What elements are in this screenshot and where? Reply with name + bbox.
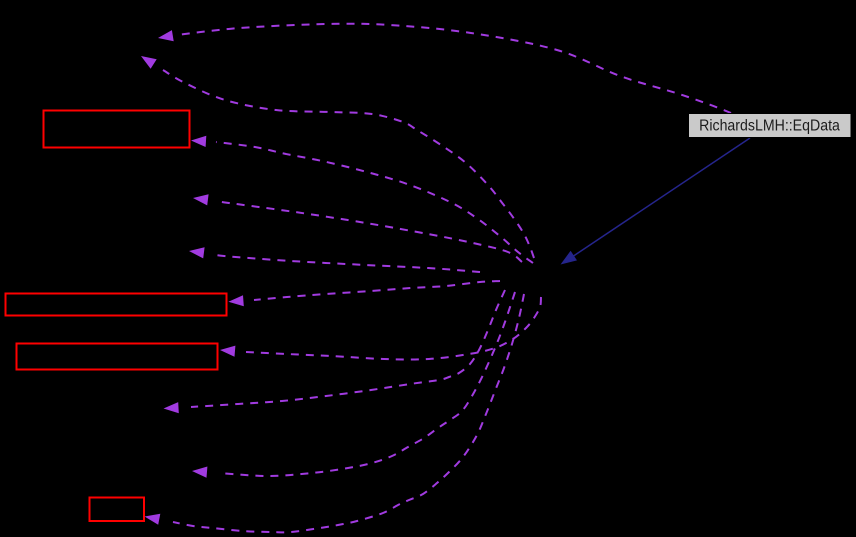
edge 9 (dashed purple usage arrow) xyxy=(192,292,515,478)
edge 8 (dashed purple usage arrow) xyxy=(164,290,506,413)
node box 1 (red, unlabeled) xyxy=(44,111,190,148)
svg-text:RichardsLMH::EqData: RichardsLMH::EqData xyxy=(699,117,840,135)
edge 6 (dashed purple usage arrow) xyxy=(228,281,500,306)
edge 7 (dashed purple usage arrow) xyxy=(220,297,541,359)
edge 3 (dashed purple usage arrow) xyxy=(191,136,533,263)
node RichardsLMH::EqData (current node, grey box) xyxy=(689,114,852,138)
edge 5 (dashed purple usage arrow) xyxy=(189,247,480,272)
edge 1 (dashed purple usage arrow) xyxy=(158,24,731,113)
edge 10 (dashed purple usage arrow) xyxy=(145,294,525,532)
inheritance edge (solid blue, RichardsLMH::EqData to base) xyxy=(561,138,751,265)
edge 2 (dashed purple usage arrow) xyxy=(141,56,534,258)
edge 4 (dashed purple usage arrow) xyxy=(193,194,522,262)
node box 4 (red, unlabeled) xyxy=(90,498,145,522)
node box 2 (red, unlabeled) xyxy=(6,294,227,316)
node box 3 (red, unlabeled) xyxy=(17,344,218,370)
